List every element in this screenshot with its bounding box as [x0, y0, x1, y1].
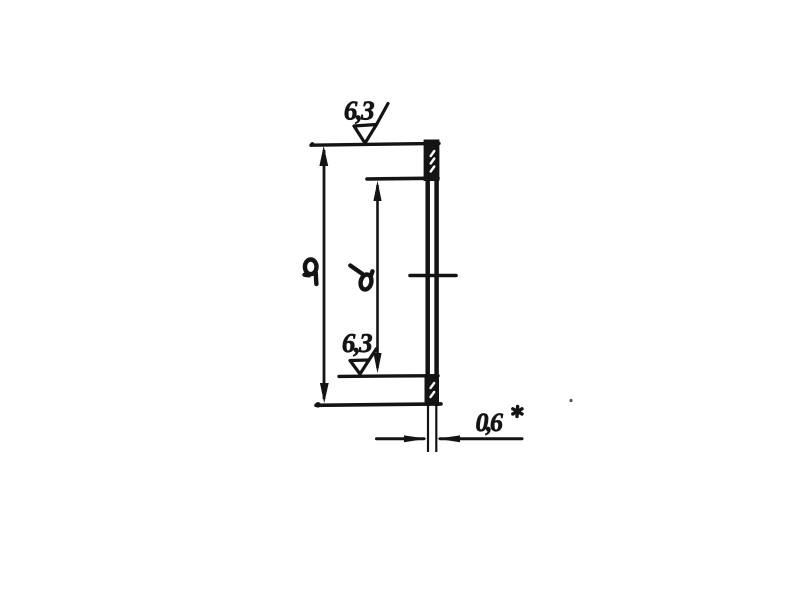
dimension line D — [323, 150, 326, 399]
washer right edge — [434, 141, 439, 406]
extension line d top — [367, 176, 438, 180]
asterisk — [513, 407, 522, 417]
svg-text:6,3: 6,3 — [344, 96, 374, 126]
extension line d bottom — [339, 374, 438, 378]
arrow d top — [373, 181, 381, 201]
centerline — [410, 274, 456, 278]
thickness arrow right (points left) — [437, 435, 460, 442]
section fill bottom (hatched cut) — [425, 376, 440, 405]
extension line bottom (OD bottom edge) — [316, 404, 441, 405]
roughness symbol top flick — [377, 104, 389, 125]
ink blob at left end of bottom extension line — [315, 402, 321, 408]
svg-text:0,6: 0,6 — [476, 408, 504, 437]
label D (rotated cursive) — [305, 260, 317, 285]
svg-text:6,3: 6,3 — [342, 328, 372, 358]
thickness extension line right (below part) — [435, 405, 437, 452]
label d (rotated cursive) — [350, 266, 373, 291]
roughness symbol top (triangle) — [354, 125, 377, 144]
arrow d bottom — [373, 353, 381, 373]
section fill top (hatched cut) — [424, 140, 440, 182]
thickness arrow left (points right) — [404, 435, 427, 442]
stray scan dot — [569, 399, 572, 402]
thickness dim line right segment — [440, 437, 522, 440]
washer left edge — [425, 141, 430, 406]
dimension line d — [376, 185, 379, 368]
arrow D top — [319, 146, 328, 166]
arrow D bottom — [320, 383, 329, 403]
hatch marks top — [431, 151, 435, 172]
thickness extension line left (below part) — [427, 405, 429, 452]
roughness symbol bottom (triangle) — [350, 360, 369, 374]
hatch marks bottom — [431, 383, 435, 397]
ink blob at left end of top extension line — [310, 142, 314, 146]
thickness dim line left segment — [377, 437, 425, 440]
extension line top (OD top edge) — [311, 143, 439, 145]
roughness symbol bottom flick — [369, 349, 377, 361]
